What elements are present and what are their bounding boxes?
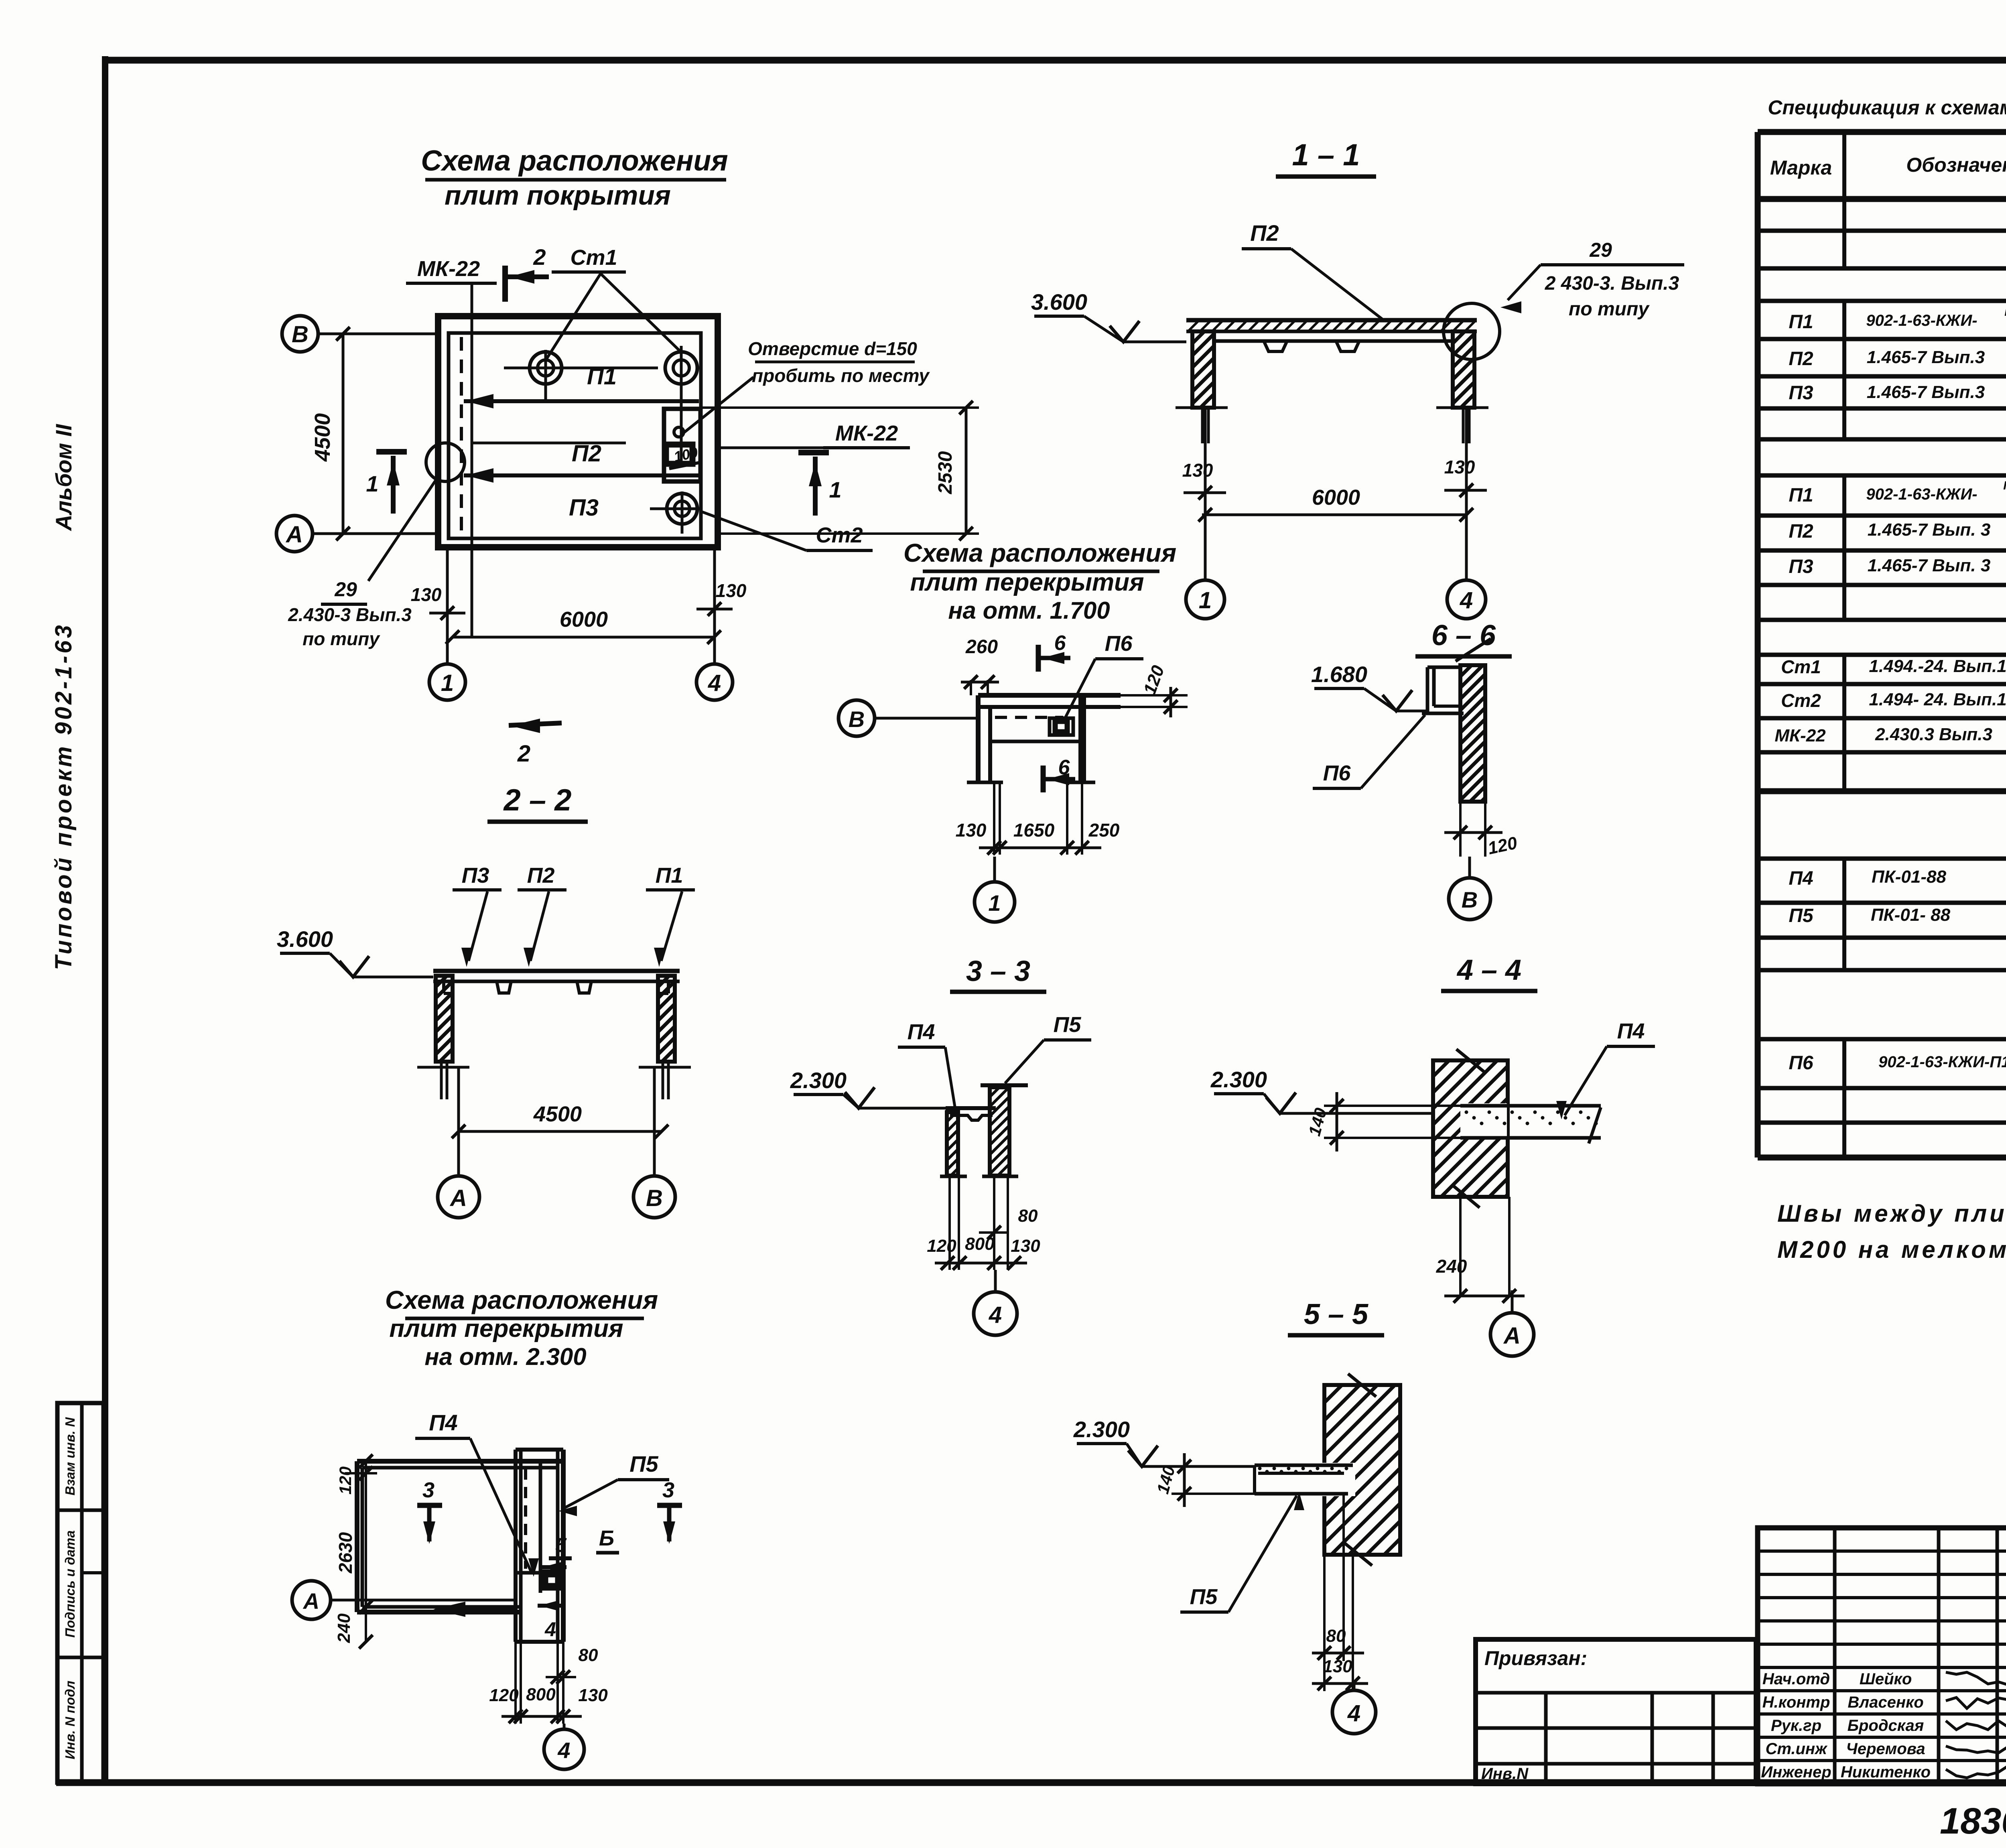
svg-text:Рук.гр: Рук.гр <box>1771 1717 1821 1734</box>
svg-text:Схема расположения: Схема расположения <box>904 538 1176 567</box>
svg-text:130: 130 <box>956 820 987 841</box>
svg-text:Отверстие d=150: Отверстие d=150 <box>748 338 917 359</box>
svg-text:4 – 4: 4 – 4 <box>1456 954 1521 986</box>
svg-text:3: 3 <box>662 1478 674 1502</box>
svg-text:1: 1 <box>829 477 841 502</box>
spec table horizontal lines <box>1758 129 2006 135</box>
svg-text:МК-22: МК-22 <box>835 421 898 445</box>
svg-text:П1: П1 <box>1789 485 1813 506</box>
svg-text:по типу: по типу <box>303 628 380 649</box>
detail circle 29 on plan <box>426 443 465 481</box>
section 1-1 slab soffit with ribs <box>1216 339 1452 343</box>
svg-text:Черемова: Черемова <box>1846 1740 1925 1758</box>
svg-text:П1: П1 <box>1789 311 1813 333</box>
svg-text:6000: 6000 <box>1312 485 1360 510</box>
svg-text:1 – 1: 1 – 1 <box>1292 138 1360 172</box>
svg-text:В: В <box>646 1185 663 1211</box>
svg-text:18303 - 01: 18303 - 01 <box>1940 1801 2006 1842</box>
plan 1.700 inner joint <box>990 740 1080 743</box>
axis circle В plan 1.700 <box>839 700 875 736</box>
title block signature grid <box>1758 1528 2006 1784</box>
axis circle А section 4-4 <box>1490 1313 1534 1356</box>
axis circle 4 section 1-1 <box>1447 580 1486 619</box>
svg-text:П5: П5 <box>1789 905 1814 926</box>
svg-text:МК-22: МК-22 <box>417 257 480 281</box>
svg-text:29: 29 <box>1589 239 1612 261</box>
axis circle 4 section 5-5 <box>1332 1690 1376 1734</box>
svg-text:130: 130 <box>1444 457 1475 477</box>
dimension 4500 section 2-2 <box>459 1130 662 1133</box>
section 3-3 bottom caps <box>940 1175 967 1178</box>
svg-text:902-1-63-КЖИ-: 902-1-63-КЖИ- <box>1866 312 1977 329</box>
svg-text:М200 на мелком заполнителе: М200 на мелком заполнителе. <box>1777 1236 2006 1263</box>
section 4-4 slab pocket <box>1460 1103 1507 1139</box>
svg-text:ПАШВ-4а: ПАШВ-4а <box>2004 305 2006 319</box>
svg-text:1.494- 24. Вып.1: 1.494- 24. Вып.1 <box>1869 690 2006 709</box>
svg-text:Ст2: Ст2 <box>1781 690 1821 711</box>
axis circle В section 2-2 <box>633 1176 675 1218</box>
svg-text:Шейко: Шейко <box>1860 1670 1912 1688</box>
axis circle 1 plan 1.700 <box>975 882 1015 922</box>
svg-text:4500: 4500 <box>311 413 335 462</box>
svg-text:Инв.N: Инв.N <box>1481 1765 1529 1783</box>
svg-text:2.300: 2.300 <box>1210 1067 1267 1092</box>
svg-text:Б: Б <box>599 1526 614 1550</box>
leader arrows to slab 2-2 <box>469 892 487 961</box>
svg-text:Швы между плитами покрытия: Швы между плитами покрытия заполнить Бет… <box>1777 1200 2006 1227</box>
svg-text:2.430-3 Вып.3: 2.430-3 Вып.3 <box>288 604 412 625</box>
svg-text:ПК-01-88: ПК-01-88 <box>1872 867 1946 887</box>
dim 120 section 6-6 <box>1459 802 1462 857</box>
section 3-3 dims 120 800 130 80 <box>935 1262 1027 1265</box>
svg-text:120: 120 <box>927 1236 956 1256</box>
svg-text:1: 1 <box>988 890 1001 916</box>
svg-text:П5: П5 <box>1054 1013 1082 1037</box>
svg-text:А: А <box>285 522 303 548</box>
svg-text:2: 2 <box>533 244 546 270</box>
svg-text:130: 130 <box>716 580 747 601</box>
section 5-5 dim 140 <box>1172 1465 1255 1468</box>
plan 2.300 band joint <box>516 1571 563 1575</box>
svg-text:П4: П4 <box>1789 868 1813 889</box>
dims 130 1650 250 plan 1.700 <box>993 782 995 855</box>
svg-text:Ст2: Ст2 <box>816 523 863 547</box>
svg-text:Ст.инж: Ст.инж <box>1765 1740 1828 1758</box>
embedded plate thick rect <box>666 445 692 464</box>
svg-text:П2: П2 <box>527 863 555 887</box>
svg-text:80: 80 <box>1326 1626 1346 1646</box>
svg-text:1.465-7 Вып. 3: 1.465-7 Вып. 3 <box>1868 556 1991 575</box>
svg-text:4: 4 <box>1460 587 1473 613</box>
svg-text:1: 1 <box>441 670 454 696</box>
svg-text:Н.контр: Н.контр <box>1762 1694 1830 1711</box>
section mark 6 bottom <box>1041 766 1046 792</box>
embedded part МК-22 rectangle <box>664 409 700 481</box>
svg-text:П4: П4 <box>1617 1019 1645 1043</box>
section 6-6 wall break top diagonal <box>1456 639 1491 661</box>
svg-text:2 430-3. Вып.3: 2 430-3. Вып.3 <box>1545 273 1679 294</box>
centerline through lifting loops row 1 <box>504 367 658 370</box>
svg-text:902-1-63-КЖИ-: 902-1-63-КЖИ- <box>1866 485 1977 503</box>
svg-text:3.600: 3.600 <box>277 926 333 952</box>
section 2-2 slab <box>433 969 680 973</box>
svg-text:ПК-01- 88: ПК-01- 88 <box>1871 905 1951 925</box>
svg-text:Ст1: Ст1 <box>570 246 617 270</box>
svg-text:П4: П4 <box>908 1020 935 1044</box>
svg-text:130: 130 <box>1182 460 1213 481</box>
axis circle В <box>282 316 318 352</box>
left margin inventory strip table <box>57 1403 104 1783</box>
svg-text:6 – 6: 6 – 6 <box>1431 619 1496 652</box>
svg-text:4: 4 <box>557 1738 570 1763</box>
svg-text:ПАШВ-4а: ПАШВ-4а <box>2003 479 2006 492</box>
axis circle 1 <box>429 664 465 700</box>
slab joint line П1/П2 <box>464 399 699 403</box>
section mark 2 top <box>502 266 508 302</box>
axis circle А <box>276 516 313 552</box>
axis circle 1 section 1-1 <box>1186 580 1224 619</box>
svg-text:Схема расположения: Схема расположения <box>385 1285 658 1314</box>
svg-text:80: 80 <box>579 1645 598 1665</box>
svg-text:Инженер: Инженер <box>1761 1763 1831 1781</box>
detail circle 29 section 1-1 <box>1444 303 1500 359</box>
svg-text:6000: 6000 <box>560 607 608 632</box>
svg-text:1.680: 1.680 <box>1311 662 1367 687</box>
svg-text:5 – 5: 5 – 5 <box>1304 1298 1368 1330</box>
svg-text:МК-22: МК-22 <box>1775 726 1826 745</box>
svg-text:250: 250 <box>1088 820 1120 841</box>
plan 2.300 outline square <box>357 1459 563 1464</box>
svg-text:В: В <box>849 707 865 732</box>
privyazan table <box>1476 1639 1756 1784</box>
svg-text:4: 4 <box>708 670 721 696</box>
svg-text:29: 29 <box>334 578 357 601</box>
svg-text:2.430.3 Вып.3: 2.430.3 Вып.3 <box>1875 725 1992 744</box>
svg-text:130: 130 <box>1011 1236 1040 1256</box>
svg-text:2 – 2: 2 – 2 <box>503 783 571 817</box>
svg-text:Обозначение: Обозначение <box>1906 154 2006 176</box>
plan 2.300 slab joint arrow at А level <box>433 1602 465 1617</box>
dimension 6000 section 1-1 <box>1202 514 1466 516</box>
spec table vertical lines <box>1755 132 1761 1158</box>
svg-text:Ст1: Ст1 <box>1781 656 1821 677</box>
svg-text:П6: П6 <box>1323 761 1351 785</box>
svg-text:Нач.отд: Нач.отд <box>1762 1670 1830 1688</box>
lifting loop Ст1 left <box>530 352 562 384</box>
svg-text:П2: П2 <box>572 441 601 467</box>
svg-text:П4: П4 <box>429 1410 457 1435</box>
svg-text:П5: П5 <box>1190 1585 1218 1609</box>
svg-text:пробить по месту: пробить по месту <box>752 365 930 386</box>
svg-text:2530: 2530 <box>935 451 956 494</box>
svg-text:П6: П6 <box>1789 1052 1813 1074</box>
svg-text:1650: 1650 <box>1013 820 1055 841</box>
axis circle В section 6-6 <box>1449 878 1490 920</box>
section mark 4 mark <box>538 1604 565 1608</box>
plan 1.700 dashed line <box>995 716 1063 719</box>
axis circle А section 2-2 <box>438 1176 479 1218</box>
svg-text:2.300: 2.300 <box>1073 1417 1130 1442</box>
drawing frame border <box>102 56 108 1783</box>
svg-text:120: 120 <box>489 1686 519 1705</box>
svg-text:120: 120 <box>336 1466 355 1495</box>
svg-text:6: 6 <box>1058 756 1070 779</box>
svg-text:4500: 4500 <box>533 1102 582 1126</box>
svg-text:П2: П2 <box>1789 521 1813 542</box>
svg-text:П2: П2 <box>1250 220 1279 246</box>
svg-text:П6: П6 <box>1105 632 1133 656</box>
svg-text:1.465-7 Вып. 3: 1.465-7 Вып. 3 <box>1868 520 1991 540</box>
section 4-4 slab П4 <box>1460 1104 1601 1108</box>
svg-text:4: 4 <box>544 1618 556 1641</box>
section 4-4 wall break marks <box>1456 1049 1484 1072</box>
svg-text:2: 2 <box>517 741 530 767</box>
svg-text:240: 240 <box>334 1613 354 1643</box>
roof plan dashed left edge <box>460 337 463 537</box>
section 2-2 slab ribs <box>497 981 511 993</box>
svg-text:800: 800 <box>526 1685 556 1704</box>
vertical dimension 2530 <box>702 406 979 409</box>
centerline П2 <box>471 442 626 445</box>
roof plan outer wall rectangle <box>438 316 718 547</box>
svg-text:1: 1 <box>366 471 378 496</box>
svg-text:130: 130 <box>1323 1657 1352 1676</box>
svg-text:плит перекрытия: плит перекрытия <box>910 569 1144 596</box>
section 3-3 П5 top cap <box>981 1083 1028 1087</box>
svg-text:1.465-7 Вып.3: 1.465-7 Вып.3 <box>1867 382 1985 402</box>
section 1-1 slab band <box>1186 318 1477 323</box>
svg-text:2.300: 2.300 <box>790 1068 847 1093</box>
axis circle 4 <box>696 664 733 700</box>
section 1-1 wall break lines below <box>1201 408 1204 443</box>
section 5-5 slab pocket <box>1322 1463 1355 1496</box>
svg-text:4: 4 <box>989 1302 1002 1328</box>
svg-text:6: 6 <box>1054 632 1066 655</box>
svg-text:Бродская: Бродская <box>1848 1717 1924 1734</box>
section 2-2 wall break below <box>440 1062 443 1099</box>
plan 2.300 vertical band <box>514 1450 518 1642</box>
plan 2.300 dashed line in band <box>524 1468 527 1569</box>
svg-text:1.465-7 Вып.3: 1.465-7 Вып.3 <box>1867 347 1985 367</box>
svg-text:Власенко: Власенко <box>1848 1694 1923 1711</box>
svg-text:3 – 3: 3 – 3 <box>966 955 1030 987</box>
svg-text:260: 260 <box>965 636 998 658</box>
svg-text:Схема расположения: Схема расположения <box>421 145 728 177</box>
svg-text:П3: П3 <box>569 495 599 521</box>
svg-text:1.494.-24. Вып.1: 1.494.-24. Вып.1 <box>1869 656 2006 676</box>
svg-text:А: А <box>1503 1323 1521 1349</box>
section 3-3 extension lines down <box>948 1176 951 1270</box>
svg-text:на отм. 2.300: на отм. 2.300 <box>424 1343 586 1370</box>
svg-text:Привязан:: Привязан: <box>1484 1647 1587 1669</box>
section mark 1 left <box>376 449 407 455</box>
svg-text:3.600: 3.600 <box>1031 289 1087 315</box>
plan 1.700 outline <box>978 693 1121 698</box>
svg-text:902-1-63-КЖИ-П18д-5А: 902-1-63-КЖИ-П18д-5А <box>1878 1053 2006 1071</box>
svg-text:П1: П1 <box>656 863 683 887</box>
svg-text:по типу: по типу <box>1569 299 1650 320</box>
svg-text:П3: П3 <box>1789 382 1813 404</box>
svg-text:130: 130 <box>578 1686 608 1705</box>
svg-text:плит перекрытия: плит перекрытия <box>389 1315 623 1342</box>
horizontal dimension 6000 <box>453 636 714 639</box>
svg-text:на отм. 1.700: на отм. 1.700 <box>948 597 1110 624</box>
left dims 120 2630 240 plan 2.300 <box>365 1461 367 1642</box>
svg-text:Альбом II: Альбом II <box>51 424 76 532</box>
svg-text:Подпись и дата: Подпись и дата <box>63 1530 77 1638</box>
svg-text:Марка: Марка <box>1770 156 1832 179</box>
svg-text:Инв. N подл: Инв. N подл <box>63 1681 77 1759</box>
hole in slab <box>674 427 684 437</box>
svg-text:4: 4 <box>1347 1700 1360 1726</box>
svg-text:П2: П2 <box>1789 348 1813 370</box>
slab joint line П2/П3 <box>464 473 699 477</box>
plan 1.700 opening <box>1050 718 1073 735</box>
svg-text:П5: П5 <box>629 1451 658 1476</box>
section 3-3 П4 slab top profile <box>946 1106 996 1110</box>
axis circle 4 section 3-3 <box>974 1292 1017 1335</box>
svg-text:3: 3 <box>422 1478 434 1502</box>
svg-text:А: А <box>303 1588 319 1614</box>
section 5-5 wall break marks <box>1348 1374 1376 1397</box>
svg-text:Взам инв. N: Взам инв. N <box>63 1417 77 1495</box>
svg-text:П3: П3 <box>1789 556 1813 577</box>
axis circle 4 plan 2.300 <box>544 1729 584 1769</box>
svg-text:В: В <box>1462 887 1478 912</box>
svg-text:плит покрытия: плит покрытия <box>445 180 671 211</box>
svg-text:1: 1 <box>1199 587 1212 613</box>
dim 120 rotated plan 1.700 <box>1121 694 1188 697</box>
svg-text:П1: П1 <box>587 364 617 390</box>
section 5-5 bottom dims 80 130 <box>1323 1555 1326 1691</box>
plan 2.300 band mid divider П4/П5 <box>539 1460 542 1593</box>
section mark 1 right <box>798 450 829 455</box>
svg-text:П3: П3 <box>462 863 489 887</box>
svg-text:130: 130 <box>411 584 442 605</box>
svg-text:240: 240 <box>1436 1256 1467 1277</box>
section 4-4 dim 140 <box>1324 1105 1460 1107</box>
bottom dims plan 2.300 <box>514 1642 517 1724</box>
section mark 2 bottom (view direction) <box>509 723 562 725</box>
svg-text:А: А <box>449 1185 467 1211</box>
svg-text:5: 5 <box>555 1534 567 1556</box>
vertical dimension 4500 <box>342 334 345 534</box>
roof plan inner rectangle <box>449 333 701 538</box>
lifting loop Ст1 right <box>665 352 697 384</box>
svg-text:В: В <box>292 321 309 347</box>
plan 2.300 opening with plate <box>542 1571 561 1589</box>
section 5-5 slab П5 <box>1255 1464 1353 1467</box>
svg-text:Спецификация к схемам располож: Спецификация к схемам расположения плит … <box>1768 96 2006 119</box>
svg-text:Типовой проект 902-1-63: Типовой проект 902-1-63 <box>51 623 77 970</box>
section 4-4 dim 240 <box>1459 1197 1462 1296</box>
svg-text:Никитенко: Никитенко <box>1841 1763 1931 1781</box>
section 6-6 slab П6 end profile <box>1426 667 1429 713</box>
svg-text:2630: 2630 <box>335 1532 356 1574</box>
axis circle А plan 2.300 <box>292 1581 331 1619</box>
svg-text:80: 80 <box>1018 1206 1038 1226</box>
section mark 6 top <box>1036 645 1041 672</box>
lifting loop Ст2 <box>667 493 697 524</box>
